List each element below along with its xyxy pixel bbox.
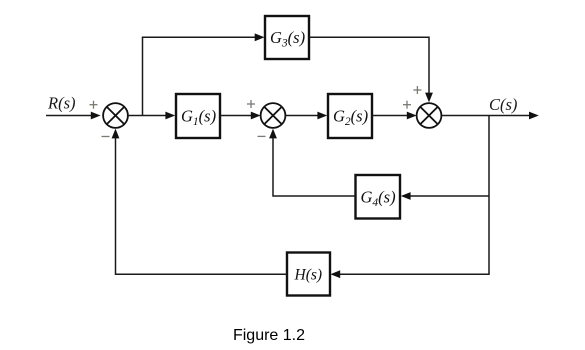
svg-text:G1(s): G1(s) bbox=[181, 107, 216, 129]
block G3 bbox=[265, 16, 309, 59]
svg-text:C(s): C(s) bbox=[489, 95, 517, 114]
block H bbox=[287, 253, 330, 296]
wire S3 to output C(s) bbox=[441, 112, 538, 120]
node branch to G3 bbox=[142, 37, 144, 115]
wire branch to H input bbox=[330, 270, 489, 278]
wire G1 to S2 bbox=[220, 112, 261, 120]
wire S1 to G1 bbox=[128, 112, 175, 120]
block G1 bbox=[176, 94, 220, 138]
arrow into S3 top bbox=[425, 93, 433, 103]
wire branch to G3 input bbox=[142, 33, 265, 41]
minus sign at summer S1 bbox=[102, 136, 110, 138]
minus sign at summer S2 bbox=[258, 135, 266, 137]
plus sign at summer S2 bbox=[247, 100, 255, 108]
arrow into S2 bottom bbox=[269, 129, 277, 139]
summing junction S3 bbox=[417, 103, 442, 128]
wire G4 to S2 bbox=[273, 137, 356, 196]
plus sign at S3 top input bbox=[413, 86, 421, 94]
svg-text:G2(s): G2(s) bbox=[333, 107, 368, 129]
plus sign at summer S1 bbox=[90, 101, 98, 109]
wire G3 to S3 bbox=[309, 37, 429, 93]
plus sign at S3 left input bbox=[403, 101, 411, 109]
svg-text:G4(s): G4(s) bbox=[361, 188, 396, 210]
wire branch to G4 input bbox=[401, 192, 489, 200]
wire S2 to G2 bbox=[285, 112, 327, 120]
node output branch bbox=[488, 116, 490, 275]
wire input R(s) bbox=[46, 112, 101, 120]
svg-text:Figure 1.2: Figure 1.2 bbox=[233, 327, 305, 344]
summing junction S1 bbox=[103, 103, 128, 128]
arrow into S1 bottom bbox=[112, 129, 120, 139]
wire G2 to S3 bbox=[372, 112, 417, 120]
svg-text:G3(s): G3(s) bbox=[270, 28, 305, 50]
block G4 bbox=[356, 175, 401, 219]
wire H to S1 bbox=[116, 137, 288, 274]
svg-text:H(s): H(s) bbox=[294, 267, 323, 284]
summing junction S2 bbox=[261, 103, 286, 128]
svg-text:R(s): R(s) bbox=[47, 94, 76, 113]
block G2 bbox=[328, 94, 372, 138]
